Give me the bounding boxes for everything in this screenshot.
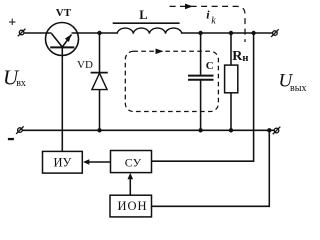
svg-text:VD: VD	[77, 59, 93, 71]
svg-text:СУ: СУ	[125, 155, 142, 169]
svg-text:VT: VT	[56, 7, 72, 19]
svg-text:вых: вых	[290, 83, 306, 94]
svg-text:L: L	[139, 8, 147, 22]
svg-text:ИОН: ИОН	[118, 199, 148, 213]
svg-text:C: C	[206, 60, 214, 72]
svg-text:вх: вх	[16, 78, 26, 89]
svg-text:+: +	[8, 16, 16, 31]
svg-text:ИУ: ИУ	[54, 156, 72, 170]
svg-text:н: н	[242, 53, 248, 64]
svg-text:k: k	[211, 16, 216, 27]
